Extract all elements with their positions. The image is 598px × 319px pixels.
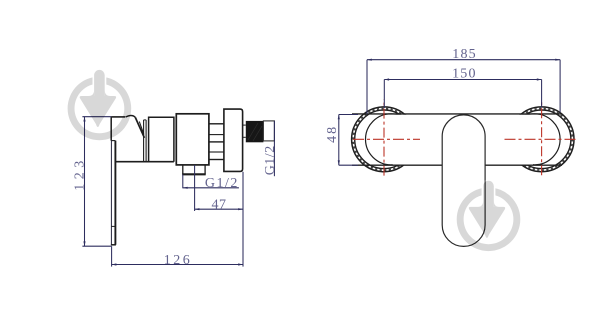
watermark stem [94, 70, 105, 97]
arrow 48 bottom [338, 160, 340, 165]
dim 150 extension right [541, 80, 543, 108]
dim 47 line [195, 208, 243, 210]
dim 123 extension top [82, 116, 111, 118]
S-union nipple line 5 [209, 159, 224, 161]
pipe end outline [263, 121, 274, 141]
dim 185 extension right [559, 60, 561, 113]
dim 48 line [338, 115, 340, 166]
S-union nipple line 1 [209, 123, 224, 125]
svg-text:48: 48 [325, 125, 340, 143]
watermark ring [68, 77, 132, 141]
svg-text:G1/2: G1/2 [263, 145, 278, 175]
watermark stem fillets [88, 90, 110, 96]
svg-text:126: 126 [164, 253, 193, 268]
right union eccentric circle (white filled) [509, 114, 560, 165]
red centreline vertical left [383, 99, 385, 175]
lever neck diagonal (front) [135, 117, 144, 137]
watermark stem fillets [478, 201, 500, 207]
dim 126 line [112, 264, 243, 266]
dim 185 line [367, 59, 560, 61]
right flange ring inner circle [512, 110, 571, 169]
thread connector tick upper [243, 124, 246, 126]
left flange ring inner circle [355, 110, 414, 169]
cartridge ring left line [143, 120, 145, 161]
dim 126 extension right [242, 172, 244, 267]
left union eccentric circle (white filled) [366, 114, 417, 165]
S-union nipple line 3 [209, 141, 224, 143]
arrow 48 top [338, 115, 340, 120]
left flange ring hatch [353, 108, 415, 170]
lever blade left edge [110, 141, 112, 245]
body top edge [352, 113, 562, 115]
watermark stem [483, 181, 494, 208]
watermark logo top-left [68, 70, 132, 140]
watermark ring [457, 188, 521, 252]
arrow 185 right [555, 59, 560, 61]
svg-text:G1/2: G1/2 [205, 176, 239, 191]
arrow 123 top [83, 117, 85, 122]
bottom outlet left edge [182, 165, 184, 175]
red centreline horizontal left [353, 138, 420, 140]
dim 150 extension left [383, 80, 385, 109]
right flange ring hatch [511, 108, 573, 170]
housing section 1 [149, 117, 174, 162]
lever neck diagonal (inner thin) [139, 122, 144, 135]
lever blade joint tick [111, 225, 115, 227]
arrow 47 left [195, 208, 200, 210]
svg-text:123: 123 [73, 156, 88, 191]
dim 126 extension left [111, 246, 113, 266]
lever handle top edge [111, 116, 125, 118]
lever blade right edge [114, 141, 116, 245]
svg-text:150: 150 [452, 67, 477, 82]
red centreline horizontal right [505, 138, 579, 140]
dim 185 extension left [366, 60, 368, 114]
watermark triangle [80, 96, 116, 127]
dim 48 extension bottom [339, 164, 358, 166]
red centreline vertical right [541, 99, 543, 175]
arrow 47 right [238, 208, 243, 210]
svg-text:47: 47 [212, 197, 227, 212]
dim 48 extension top [339, 114, 358, 116]
lever left edge upper [110, 117, 112, 141]
dim 123 extension bottom [82, 245, 111, 247]
lever blade bottom cap [111, 244, 116, 246]
G1/2 pipe end line [273, 121, 275, 176]
arrow 126 left [112, 263, 117, 265]
lever handle hump [126, 116, 136, 118]
dim 123 line [84, 117, 86, 247]
body bottom edge (under cap and housing 1) [115, 161, 173, 163]
bottom outlet bottom edge [182, 173, 206, 175]
S-union nipple line 4 [209, 151, 224, 153]
handle capsule (front) [442, 115, 485, 247]
housing section 2 (main body block) [176, 114, 209, 165]
watermark stem halo [94, 70, 105, 97]
thread hatch highlights [248, 123, 262, 141]
thread connector tick lower [243, 136, 246, 138]
threaded wall pipe (hatched block) [246, 121, 264, 142]
arrow 150 left [384, 78, 389, 80]
cartridge ring right line [145, 120, 147, 161]
body slab (white fill hides inner arcs) [393, 115, 533, 165]
dim 47 extension left (outlet centre) [194, 165, 196, 211]
dim 150 line [384, 79, 541, 81]
watermark logo bottom-right [457, 181, 521, 251]
arrow 185 left [367, 59, 372, 61]
G1/2 outlet leader line [183, 187, 239, 189]
arrow 123 bottom [83, 241, 85, 246]
cartridge ring top [144, 119, 147, 121]
left flange outer circle [352, 107, 417, 172]
S-union nipple line 2 [209, 134, 224, 136]
lever step joint [111, 140, 115, 142]
arrow G1/2 leader [183, 187, 188, 189]
G1/2 outlet extension [182, 174, 184, 188]
arrow 126 right [238, 263, 243, 265]
right flange outer circle [509, 107, 574, 172]
watermark stem halo [483, 181, 494, 208]
arrow 150 right [537, 78, 542, 80]
watermark triangle [469, 207, 505, 238]
wall escutcheon flange [224, 109, 243, 171]
bottom outlet right edge [204, 165, 206, 175]
svg-text:185: 185 [452, 47, 477, 62]
body bottom edge [352, 164, 562, 166]
